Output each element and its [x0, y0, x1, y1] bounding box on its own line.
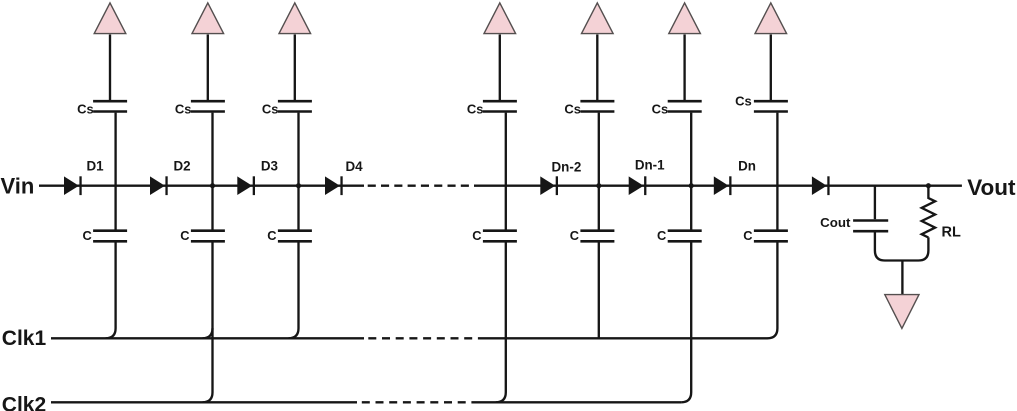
svg-text:C: C [570, 228, 579, 243]
svg-text:Cs: Cs [652, 101, 669, 116]
svg-text:Cs: Cs [175, 101, 192, 116]
svg-text:D1: D1 [86, 159, 104, 174]
svg-text:Cout: Cout [820, 215, 851, 230]
svg-text:Cs: Cs [564, 101, 581, 116]
svg-text:Vout: Vout [967, 175, 1016, 200]
svg-text:Clk2: Clk2 [2, 393, 46, 411]
svg-text:Cs: Cs [77, 101, 94, 116]
svg-text:Dn-2: Dn-2 [552, 160, 582, 175]
svg-text:Cs: Cs [735, 94, 752, 109]
svg-text:C: C [82, 228, 91, 243]
svg-text:C: C [743, 228, 752, 243]
svg-text:D3: D3 [261, 159, 278, 174]
svg-text:Vin: Vin [1, 173, 35, 198]
svg-text:Dn: Dn [738, 159, 756, 174]
svg-text:D2: D2 [173, 159, 190, 174]
svg-text:RL: RL [942, 224, 961, 240]
svg-text:C: C [180, 228, 189, 243]
svg-text:C: C [267, 228, 276, 243]
svg-text:C: C [472, 228, 481, 243]
svg-text:Clk1: Clk1 [2, 327, 47, 350]
svg-text:Cs: Cs [467, 101, 484, 116]
svg-text:Dn-1: Dn-1 [635, 158, 665, 173]
svg-text:C: C [657, 228, 666, 243]
svg-text:D4: D4 [345, 159, 363, 174]
svg-text:Cs: Cs [262, 101, 279, 116]
